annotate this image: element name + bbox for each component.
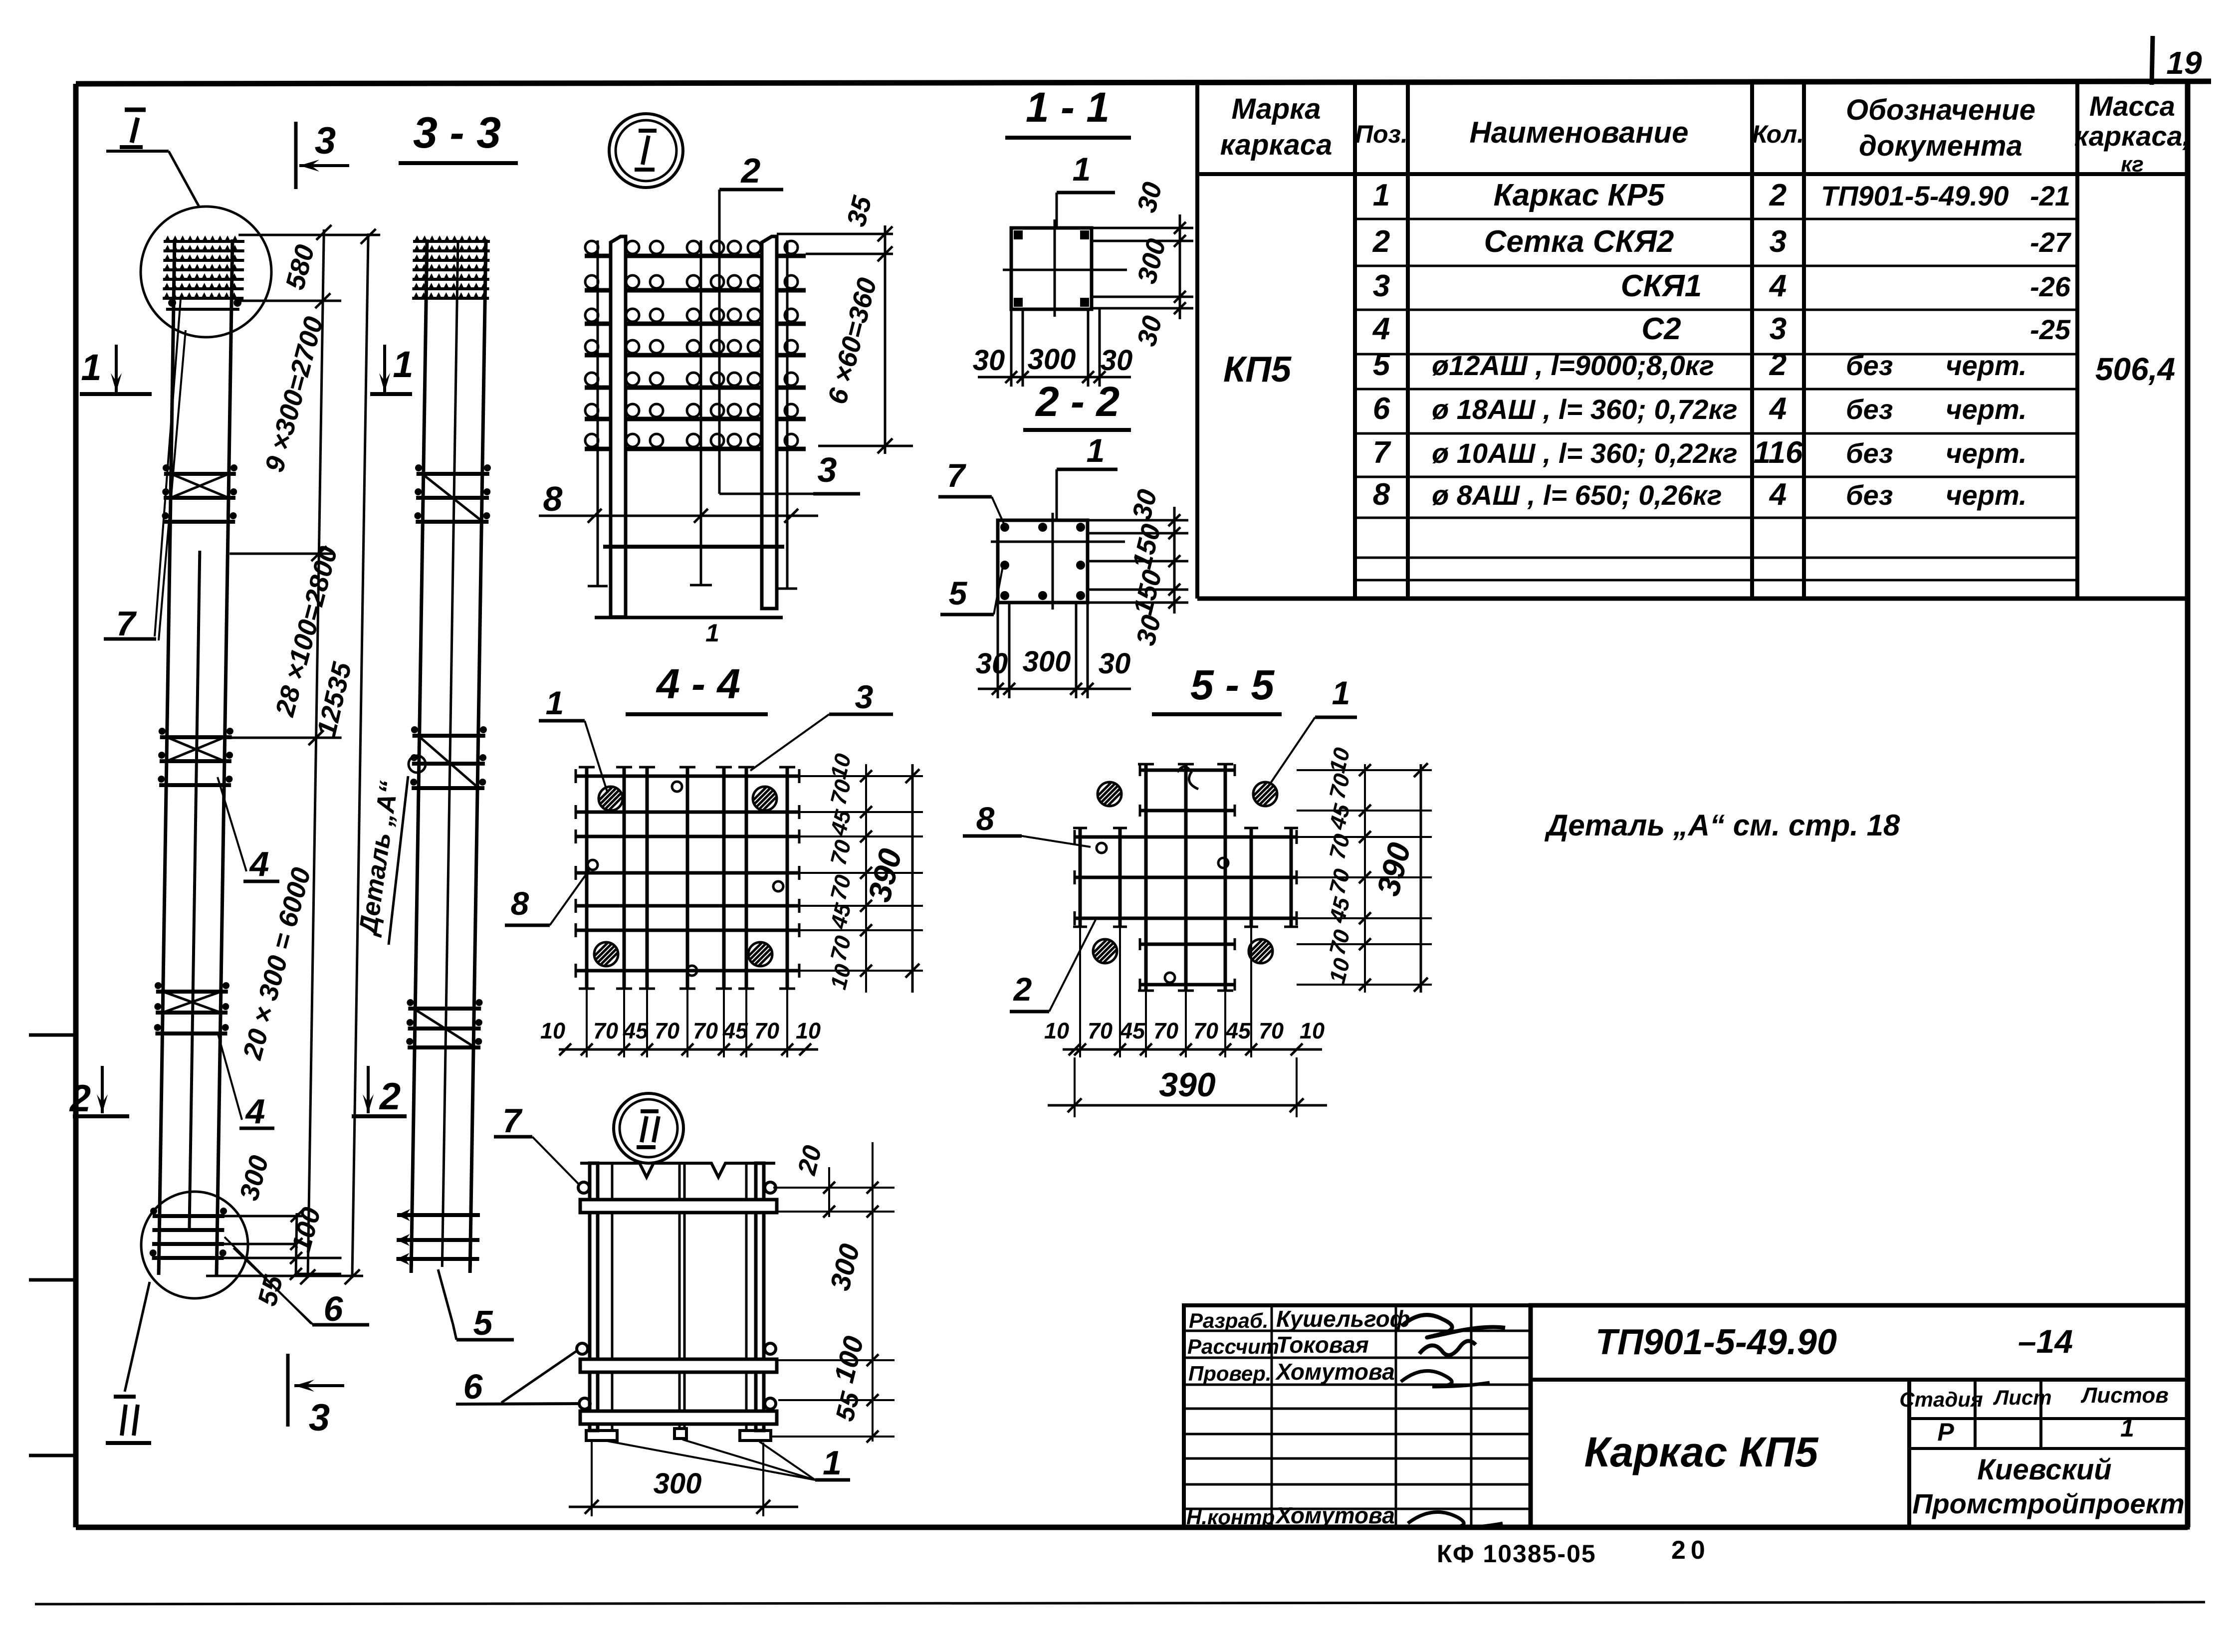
svg-text:ТП901-5-49.90: ТП901-5-49.90 bbox=[1821, 180, 2009, 211]
section 5-5 long horizontal bars bbox=[1075, 835, 1297, 839]
section 5-5 right dims bbox=[1297, 769, 1432, 771]
section marker 3 bottom bbox=[286, 1354, 290, 1427]
svg-text:Сетка СКЯ2: Сетка СКЯ2 bbox=[1484, 224, 1674, 259]
section 2-2 bottom dim 30/300/30 bbox=[997, 603, 999, 698]
svg-text:1: 1 bbox=[81, 347, 101, 388]
svg-text:ø 18АШ , l= 360; 0,72кг: ø 18АШ , l= 360; 0,72кг bbox=[1432, 394, 1738, 425]
svg-text:5: 5 bbox=[473, 1303, 493, 1342]
detail II tie band 1 bbox=[580, 1200, 777, 1213]
svg-text:1: 1 bbox=[2120, 1414, 2134, 1442]
svg-text:-27: -27 bbox=[2030, 226, 2072, 258]
detail I dims 35 and 6x60=360 bbox=[777, 233, 893, 235]
section marker 2 right (view 3-3) bbox=[367, 1066, 370, 1113]
svg-text:19: 19 bbox=[2166, 45, 2202, 81]
svg-text:3: 3 bbox=[1373, 269, 1390, 303]
svg-text:4: 4 bbox=[1769, 477, 1787, 512]
view 1: tie band 1 with X brace bbox=[164, 472, 236, 476]
svg-text:Рассчит: Рассчит bbox=[1187, 1335, 1279, 1358]
svg-text:2: 2 bbox=[379, 1075, 401, 1118]
svg-text:Хомутова: Хомутова bbox=[1275, 1359, 1395, 1385]
label 4 upper with leader bbox=[218, 777, 246, 871]
svg-text:1: 1 bbox=[823, 1444, 842, 1482]
section 2-2 inner horizontal bar bbox=[991, 541, 1125, 543]
detail I: mesh layer bars bbox=[585, 254, 806, 258]
svg-text:45: 45 bbox=[722, 1018, 748, 1043]
parts table grid bbox=[1195, 83, 1199, 599]
title block signature table bbox=[1184, 1305, 1531, 1527]
view 3-3: left bar bbox=[411, 239, 427, 1267]
section 2-2 middle bar vertical bbox=[1052, 513, 1054, 610]
section 4-4 small wire circles bbox=[672, 782, 682, 792]
section 2-2 bar dots bbox=[1000, 523, 1009, 532]
section 2-2 square outline bbox=[998, 520, 1088, 603]
view 1 bottom dims 300/100/55 bbox=[220, 1215, 302, 1218]
svg-text:Поз.: Поз. bbox=[1355, 120, 1408, 148]
svg-text:черт.: черт. bbox=[1946, 479, 2027, 511]
svg-text:70: 70 bbox=[754, 1018, 779, 1043]
svg-text:Н.контр: Н.контр bbox=[1186, 1505, 1275, 1529]
svg-text:3: 3 bbox=[315, 120, 336, 162]
dimension line 580 / 9x300 / 28x100 / 20x300 chain bbox=[308, 229, 324, 1278]
svg-text:1 - 1: 1 - 1 bbox=[1026, 84, 1110, 131]
svg-text:7: 7 bbox=[116, 604, 137, 643]
svg-text:без: без bbox=[1846, 479, 1893, 511]
svg-text:1: 1 bbox=[1073, 151, 1091, 188]
view 3-3: inner bar bbox=[442, 241, 458, 1267]
detail I: left heavy bar bbox=[611, 236, 626, 617]
svg-text:Хомутова: Хомутова bbox=[1275, 1502, 1395, 1528]
svg-text:45: 45 bbox=[1225, 1018, 1251, 1043]
section 1-1 square outline bbox=[1011, 228, 1092, 309]
svg-text:без: без bbox=[1846, 437, 1893, 469]
label II (roman numeral) bbox=[122, 1405, 126, 1436]
page fold line bottom bbox=[35, 1602, 2205, 1604]
svg-text:Кушельгоф: Кушельгоф bbox=[1276, 1306, 1410, 1332]
svg-text:1: 1 bbox=[1373, 178, 1390, 212]
small circle marker on view 3-3 band bbox=[409, 756, 426, 773]
detail I: right heavy bar bbox=[762, 236, 777, 609]
svg-text:390: 390 bbox=[1159, 1066, 1216, 1104]
svg-text:70: 70 bbox=[1153, 1018, 1178, 1043]
section 5-5 bottom dims bbox=[1145, 991, 1147, 1057]
detail II tie band 2 bbox=[580, 1359, 777, 1372]
detail II circled label bbox=[614, 1093, 683, 1163]
svg-text:5: 5 bbox=[1373, 348, 1391, 382]
svg-text:70: 70 bbox=[1259, 1018, 1284, 1043]
svg-text:5 - 5: 5 - 5 bbox=[1190, 661, 1275, 708]
svg-text:70: 70 bbox=[593, 1018, 618, 1043]
section 4-4 horizontal mesh bars bbox=[576, 775, 799, 778]
svg-text:116: 116 bbox=[1754, 435, 1803, 470]
svg-text:1: 1 bbox=[393, 344, 413, 385]
svg-text:ø 8АШ , l= 650; 0,26кг: ø 8АШ , l= 650; 0,26кг bbox=[1432, 479, 1722, 511]
detail I: lower tie line bbox=[603, 545, 784, 549]
svg-text:70: 70 bbox=[693, 1018, 718, 1043]
view 1: column elevation — mesh bundle at top bbox=[164, 240, 244, 243]
svg-text:1: 1 bbox=[1332, 674, 1350, 711]
view 1: line under mesh bbox=[166, 308, 239, 311]
svg-text:ТП901-5-49.90: ТП901-5-49.90 bbox=[1595, 1322, 1837, 1362]
detail II tie band 3 bbox=[580, 1411, 777, 1424]
left margin fold tick 1 bbox=[29, 1033, 76, 1037]
detail I circled label bbox=[609, 114, 683, 188]
label 4 lower with leader bbox=[218, 1032, 242, 1120]
detail I: thin wire center bbox=[700, 240, 702, 585]
label 6 with leaders (view 1 bottom) bbox=[224, 1237, 311, 1324]
svg-text:8: 8 bbox=[511, 885, 529, 922]
svg-text:КП5: КП5 bbox=[1223, 350, 1292, 390]
svg-text:6: 6 bbox=[463, 1367, 483, 1406]
svg-text:1: 1 bbox=[546, 684, 564, 721]
svg-text:Провер.: Провер. bbox=[1188, 1362, 1272, 1385]
svg-text:6: 6 bbox=[324, 1289, 344, 1328]
svg-text:3: 3 bbox=[1770, 312, 1787, 346]
detail II hook circles bbox=[578, 1182, 589, 1193]
overall dimension line 12535 bbox=[352, 233, 368, 1278]
svg-text:300: 300 bbox=[654, 1467, 702, 1500]
detail I: bottom line bbox=[595, 616, 783, 619]
svg-text:45: 45 bbox=[1119, 1018, 1145, 1043]
svg-text:2: 2 bbox=[1372, 224, 1390, 259]
svg-text:–14: –14 bbox=[2018, 1323, 2073, 1360]
view 3-3: column elevation — mesh bundle at top bbox=[413, 240, 490, 243]
view 1: tie band 3 with X brace bbox=[156, 990, 228, 994]
svg-text:30: 30 bbox=[976, 647, 1008, 680]
svg-text:Каркас КР5: Каркас КР5 bbox=[1494, 178, 1665, 212]
svg-text:70: 70 bbox=[1088, 1018, 1113, 1043]
section 5-5 central vertical bars bbox=[1144, 764, 1148, 991]
view 1: right longitudinal bar bbox=[217, 239, 232, 1275]
svg-text:1: 1 bbox=[1087, 432, 1105, 469]
svg-text:Листов: Листов bbox=[2080, 1383, 2169, 1408]
svg-text:документа: документа bbox=[1859, 130, 2022, 162]
detail II right heavy bar bbox=[756, 1163, 764, 1431]
svg-text:4 - 4: 4 - 4 bbox=[656, 660, 740, 707]
detail II top edge with break marks bbox=[580, 1163, 775, 1177]
page number 19 top right bbox=[2152, 36, 2153, 85]
svg-text:3 - 3: 3 - 3 bbox=[413, 108, 501, 157]
svg-text:8: 8 bbox=[1373, 477, 1390, 512]
svg-text:КФ 10385-05: КФ 10385-05 bbox=[1437, 1540, 1596, 1568]
view 3-3: bar bottom ends bbox=[410, 1259, 413, 1273]
svg-text:Промстройпроект: Промстройпроект bbox=[1912, 1488, 2185, 1519]
svg-text:3: 3 bbox=[309, 1397, 330, 1439]
svg-text:-21: -21 bbox=[2030, 180, 2070, 211]
section 2-2 right dim 30/150/150/30 bbox=[1088, 519, 1188, 522]
section 4-4 longitudinal bars (hatched circles) bbox=[599, 787, 623, 811]
leader from circle II to label II bbox=[125, 1282, 150, 1392]
detail I: pos 8 cut line with ticks bbox=[539, 515, 818, 517]
svg-text:2: 2 bbox=[1769, 178, 1787, 212]
leader from circle to label I bbox=[106, 150, 169, 153]
svg-text:3: 3 bbox=[1770, 224, 1787, 259]
svg-text:Киевский: Киевский bbox=[1977, 1453, 2111, 1486]
svg-text:Марка: Марка bbox=[1231, 93, 1321, 125]
label 5 with leader (view 3-3 bottom) bbox=[438, 1269, 456, 1340]
svg-text:30: 30 bbox=[973, 344, 1005, 377]
svg-text:30: 30 bbox=[1099, 647, 1131, 680]
title block main box bbox=[1531, 1305, 2188, 1527]
view 3-3: bottom tie group with hooks bbox=[397, 1213, 480, 1217]
svg-text:Р: Р bbox=[1937, 1418, 1954, 1446]
svg-text:70: 70 bbox=[655, 1018, 679, 1043]
detail II right dims 20/300/100/55 bbox=[773, 1187, 895, 1189]
section marker 2 left bbox=[101, 1066, 104, 1113]
label I (roman numeral) bbox=[132, 118, 138, 143]
svg-text:4: 4 bbox=[1769, 392, 1787, 426]
svg-text:8: 8 bbox=[543, 479, 563, 518]
svg-text:С2: С2 bbox=[1641, 312, 1681, 346]
detail II left heavy bar bbox=[590, 1163, 598, 1431]
svg-text:Токовая: Токовая bbox=[1276, 1332, 1369, 1358]
view 1: bottom tie group (detail II zone) bbox=[153, 1214, 224, 1218]
svg-text:Стадия: Стадия bbox=[1899, 1388, 1983, 1411]
view 3-3: tie band 2 with diagonal bbox=[413, 734, 485, 738]
svg-text:Масса: Масса bbox=[2089, 90, 2175, 122]
svg-text:7: 7 bbox=[947, 457, 967, 494]
svg-text:8: 8 bbox=[976, 800, 995, 837]
svg-text:70: 70 bbox=[1193, 1018, 1218, 1043]
section marker 3 top bbox=[294, 122, 298, 189]
svg-text:2 - 2: 2 - 2 bbox=[1035, 378, 1119, 425]
section 5-5 small wire circles bbox=[1097, 843, 1107, 853]
label 3 with leader (detail I) bbox=[719, 493, 848, 495]
section 4-4 bottom dims bbox=[586, 989, 588, 1057]
svg-text:10: 10 bbox=[540, 1018, 565, 1043]
detail I: mesh wire loops bbox=[585, 241, 598, 254]
detail I: thin wire left bbox=[597, 240, 599, 586]
svg-text:3: 3 bbox=[855, 678, 874, 715]
svg-text:кг: кг bbox=[2121, 152, 2144, 177]
svg-text:4: 4 bbox=[249, 844, 269, 883]
svg-text:черт.: черт. bbox=[1946, 394, 2027, 425]
svg-text:-26: -26 bbox=[2030, 271, 2071, 302]
view 1: left longitudinal bar bbox=[159, 239, 175, 1275]
detail I reference circle on view 1 bbox=[141, 206, 271, 337]
svg-text:45: 45 bbox=[623, 1018, 649, 1043]
view 1: tie band 2 with X brace bbox=[160, 735, 232, 739]
svg-text:300: 300 bbox=[1023, 645, 1071, 678]
svg-text:3: 3 bbox=[818, 450, 837, 489]
svg-text:2: 2 bbox=[69, 1077, 91, 1120]
view 3-3: tie band 1 with diagonal bbox=[417, 472, 489, 476]
svg-text:10: 10 bbox=[1300, 1018, 1325, 1043]
svg-text:Деталь „А“ см. стр. 18: Деталь „А“ см. стр. 18 bbox=[1544, 809, 1900, 842]
svg-text:-25: -25 bbox=[2030, 314, 2071, 345]
svg-text:6: 6 bbox=[1373, 392, 1390, 426]
section marker 1 right (view 3-3) bbox=[383, 345, 386, 392]
svg-text:каркаса: каркаса bbox=[1220, 129, 1333, 161]
detail II reference circle on view 1 bottom bbox=[141, 1192, 248, 1298]
svg-text:черт.: черт. bbox=[1946, 437, 2027, 469]
section 4-4 right dims bbox=[799, 775, 923, 777]
svg-text:7: 7 bbox=[1373, 435, 1391, 470]
section 5-5 short horizontal bars bbox=[1140, 769, 1235, 772]
svg-text:ø12АШ , l=9000;8,0кг: ø12АШ , l=9000;8,0кг bbox=[1432, 350, 1714, 381]
svg-text:4: 4 bbox=[1372, 312, 1390, 346]
svg-text:4: 4 bbox=[245, 1092, 265, 1131]
svg-text:4: 4 bbox=[1769, 269, 1787, 303]
svg-text:без: без bbox=[1846, 394, 1893, 425]
left margin fold tick 2 bbox=[29, 1278, 76, 1282]
section 5-5 break mark bbox=[1177, 767, 1198, 789]
svg-text:черт.: черт. bbox=[1946, 350, 2027, 381]
view 3-3: tie band 3 with diagonal bbox=[408, 1007, 481, 1011]
svg-text:7: 7 bbox=[502, 1102, 523, 1140]
svg-text:1: 1 bbox=[705, 619, 719, 647]
section 1-1 middle bar vertical bbox=[1054, 219, 1056, 317]
signature squiggles bbox=[1402, 1315, 1505, 1337]
detail I: thin wire right bbox=[786, 240, 789, 589]
svg-text:Лист: Лист bbox=[1993, 1386, 2051, 1409]
detail II thin wires bbox=[611, 1163, 614, 1431]
svg-text:10: 10 bbox=[796, 1018, 821, 1043]
svg-text:506,4: 506,4 bbox=[2095, 351, 2175, 387]
svg-text:30: 30 bbox=[1101, 344, 1133, 377]
section 5-5 longitudinal bars (hatched circles) bbox=[1098, 782, 1121, 806]
svg-text:300: 300 bbox=[1028, 343, 1076, 376]
section 5-5 outer vertical bars bbox=[1079, 828, 1082, 927]
section 1-1 bottom dim 30/300/30 bbox=[1010, 309, 1013, 387]
extension lines for dim chain bbox=[238, 234, 380, 236]
section 1-1 right dim 30/300/30 bbox=[1092, 227, 1193, 229]
svg-text:Обозначение: Обозначение bbox=[1846, 94, 2035, 126]
view 3-3: right bar bbox=[470, 239, 486, 1267]
svg-text:2: 2 bbox=[1013, 971, 1032, 1008]
svg-text:Каркас КП5: Каркас КП5 bbox=[1584, 1429, 1819, 1475]
svg-text:СКЯ1: СКЯ1 bbox=[1621, 269, 1702, 303]
sheet border frame bbox=[76, 81, 2211, 84]
section marker 1 left bbox=[115, 345, 118, 392]
left margin fold tick 3 bbox=[29, 1454, 76, 1457]
svg-text:5: 5 bbox=[949, 575, 968, 612]
section 4-4 vertical mesh bars bbox=[585, 767, 589, 989]
section 1-1 corner bar dots bbox=[1014, 230, 1023, 239]
svg-text:Кол.: Кол. bbox=[1752, 120, 1804, 148]
svg-text:без: без bbox=[1846, 350, 1893, 381]
svg-text:ø 10АШ , l= 360; 0,22кг: ø 10АШ , l= 360; 0,22кг bbox=[1432, 437, 1738, 469]
view 1: center bar pos.5 bbox=[189, 551, 200, 1231]
svg-text:10: 10 bbox=[1044, 1018, 1069, 1043]
section 1-1 middle bar horizontal bbox=[1003, 269, 1127, 271]
svg-text:Разраб.: Разраб. bbox=[1189, 1309, 1269, 1332]
svg-text:20: 20 bbox=[1671, 1536, 1710, 1565]
svg-text:Наименование: Наименование bbox=[1469, 116, 1688, 149]
section 5-5 overall 390 dim bbox=[1074, 1057, 1076, 1117]
detail II bottom dim 300 bbox=[591, 1442, 593, 1516]
svg-text:2: 2 bbox=[740, 151, 761, 190]
svg-text:каркаса,: каркаса, bbox=[2074, 120, 2190, 152]
detail II bottom feet bbox=[586, 1431, 771, 1441]
svg-text:2: 2 bbox=[1769, 348, 1787, 382]
